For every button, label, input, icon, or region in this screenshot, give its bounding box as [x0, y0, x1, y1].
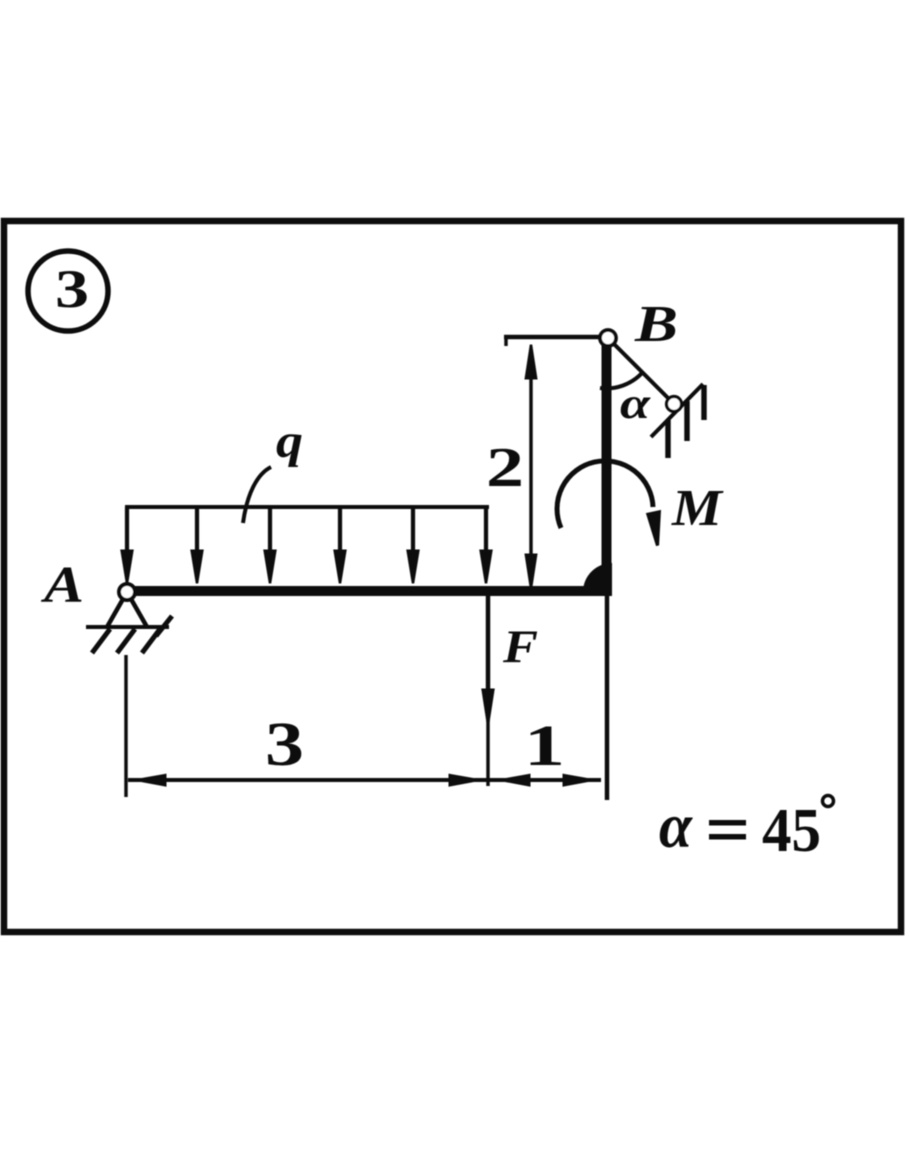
- svg-text:α: α: [659, 790, 693, 861]
- svg-text:A: A: [41, 557, 84, 614]
- svg-text:45: 45: [762, 797, 821, 865]
- svg-text:q: q: [276, 415, 303, 468]
- svg-text:α: α: [620, 379, 651, 428]
- svg-text:1: 1: [524, 713, 565, 778]
- svg-text:3: 3: [265, 711, 304, 779]
- svg-text:2: 2: [486, 437, 524, 499]
- svg-text:3: 3: [55, 259, 89, 319]
- svg-text:B: B: [634, 296, 678, 353]
- svg-text:F: F: [502, 621, 538, 673]
- svg-text:M: M: [671, 480, 724, 537]
